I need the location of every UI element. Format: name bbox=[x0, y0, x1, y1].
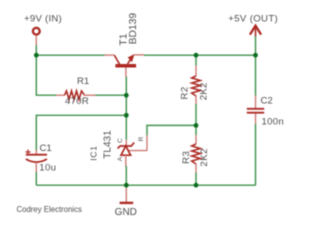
svg-text:2K2: 2K2 bbox=[199, 148, 210, 167]
resistor R3 bbox=[192, 125, 201, 185]
svg-text:C: C bbox=[117, 138, 124, 143]
supply arrow +5V bbox=[250, 26, 261, 37]
wire +5V column bbox=[255, 55, 257, 95]
wire top rail left bbox=[36, 54, 104, 56]
svg-text:C1: C1 bbox=[40, 143, 52, 154]
junction R1/base bbox=[124, 93, 129, 98]
terminal pad +9V bbox=[33, 28, 40, 35]
wire C1 to bottom rail bbox=[35, 172, 37, 185]
svg-text:100n: 100n bbox=[262, 117, 285, 128]
svg-text:R1: R1 bbox=[77, 76, 89, 87]
wire C1 top run bbox=[36, 115, 126, 150]
svg-text:R3: R3 bbox=[181, 151, 192, 164]
wire base column bbox=[125, 77, 127, 140]
pin lead from +9V pad bbox=[35, 36, 37, 46]
svg-text:TL431: TL431 bbox=[102, 130, 113, 159]
junction mid ref node bbox=[194, 123, 199, 128]
svg-text:A: A bbox=[117, 156, 124, 161]
svg-text:IC1: IC1 bbox=[88, 145, 98, 161]
svg-text:GND: GND bbox=[115, 207, 137, 218]
transistor T1 bbox=[105, 54, 145, 77]
wire bottom rail bbox=[36, 184, 256, 186]
svg-text:470R: 470R bbox=[65, 96, 89, 107]
capacitor C1 bbox=[26, 150, 48, 174]
junction 9V rail bbox=[34, 53, 39, 58]
junction +5V bbox=[253, 53, 258, 58]
junction GND bbox=[124, 183, 129, 188]
wire C2 to bottom rail bbox=[255, 124, 257, 185]
svg-text:Codrey Electronics: Codrey Electronics bbox=[17, 205, 83, 214]
resistor R2 bbox=[192, 55, 201, 125]
capacitor C2 bbox=[247, 96, 264, 125]
ground bbox=[120, 185, 134, 203]
svg-text:2K2: 2K2 bbox=[198, 82, 209, 100]
svg-text:R: R bbox=[138, 136, 145, 141]
wire left rail down to R1 bbox=[36, 55, 56, 95]
junction base/C1 run bbox=[124, 113, 129, 118]
op IC1 TL431 bbox=[118, 135, 147, 166]
wire anode to bottom rail bbox=[125, 166, 127, 185]
wire R1 to base column bbox=[96, 94, 127, 96]
wire 9V input drop bbox=[35, 45, 37, 55]
svg-text:R2: R2 bbox=[179, 86, 190, 99]
svg-text:10u: 10u bbox=[39, 162, 56, 173]
resistor R1 bbox=[56, 91, 96, 100]
wire +5V drop bbox=[255, 36, 257, 55]
svg-text:+5V (OUT): +5V (OUT) bbox=[228, 13, 278, 24]
svg-text:+9V (IN): +9V (IN) bbox=[24, 13, 62, 24]
svg-text:BD139: BD139 bbox=[128, 13, 139, 45]
junction R2 top bbox=[194, 53, 199, 58]
wire top rail right bbox=[144, 54, 256, 56]
wire mid ref bbox=[147, 125, 196, 135]
junction R3 bottom bbox=[194, 183, 199, 188]
svg-text:C2: C2 bbox=[261, 95, 273, 106]
